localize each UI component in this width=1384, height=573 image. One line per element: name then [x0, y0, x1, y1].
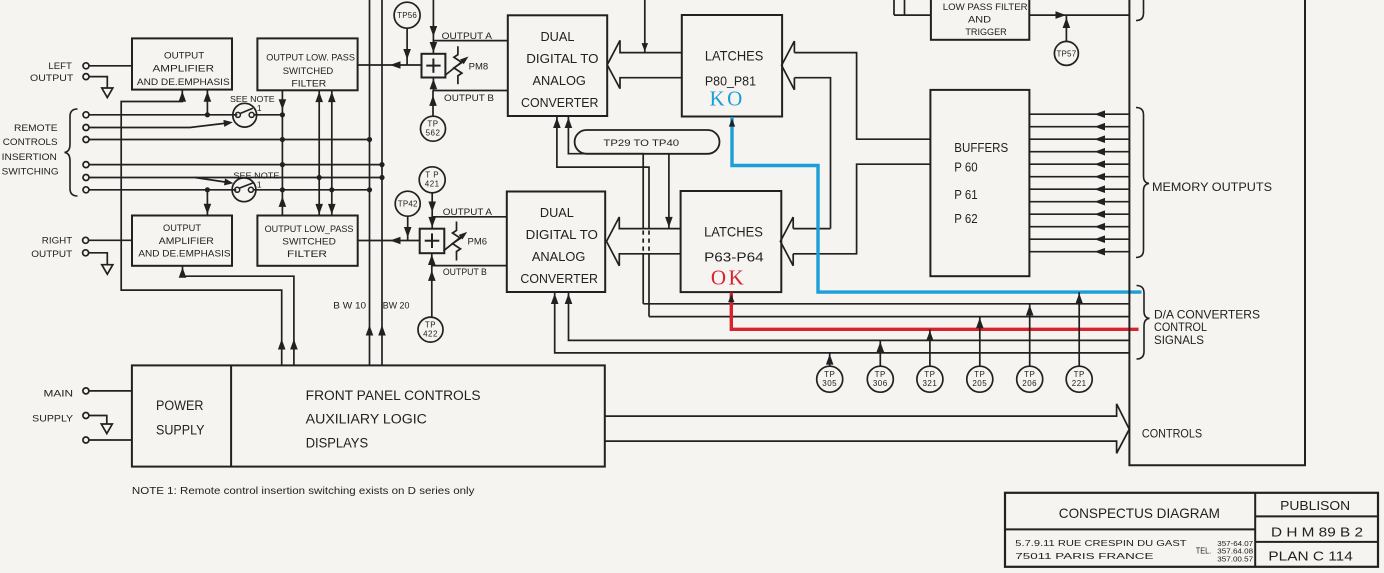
arrow into filter2 top x319 — [315, 204, 323, 215]
svg-text:1: 1 — [257, 103, 262, 113]
block filter2 OUTPUT LOW PASS SWITCHED FILTER — [257, 216, 357, 266]
wire DAC2 bottom inner to bus line C — [569, 292, 1130, 340]
svg-text:DIGITAL TO: DIGITAL TO — [526, 51, 598, 66]
arrow TP305 riser — [826, 354, 834, 365]
svg-text:SWITCHED: SWITCHED — [283, 66, 334, 77]
ground left-output — [102, 88, 113, 98]
bus arrow latches2 to DAC2 — [607, 217, 681, 266]
terminal remote-1 — [83, 112, 89, 118]
svg-text:OK: OK — [711, 266, 746, 290]
svg-text:OUTPUT B: OUTPUT B — [443, 267, 487, 277]
wire BW20 vertical — [381, 0, 383, 365]
bus arrowhead into latches2 right — [780, 217, 793, 266]
junction BW10 row6 — [367, 187, 372, 192]
svg-text:TP57: TP57 — [1056, 49, 1076, 58]
wire KO path (blue highlight) — [732, 117, 1142, 292]
arrow into DAC1 bottom outer — [553, 118, 561, 129]
wire DAC1 bottom outer to bus line B — [557, 116, 649, 229]
terminal remote-4 — [83, 162, 89, 168]
block filter3 LOW PASS FILTER AND TRIGGER — [931, 0, 1029, 40]
block power supply / front panel controls — [132, 365, 605, 466]
svg-text:OUTPUT: OUTPUT — [30, 73, 74, 83]
svg-text:AMPLIFIER: AMPLIFIER — [153, 63, 215, 74]
wire TP422 riser — [431, 266, 433, 318]
wire filter riser x319 — [318, 90, 320, 215]
label oval TP29 TO TP40 — [575, 130, 720, 154]
arrow into summer2 bottom — [428, 255, 436, 266]
wire filter riser x331 — [331, 90, 333, 215]
arrow down on riser x282 from filter1 — [279, 99, 287, 110]
svg-text:SUPPLY: SUPPLY — [156, 423, 205, 438]
wire remote-2 angled to switch A — [89, 123, 231, 128]
junction riser x282 switch-B row — [280, 187, 285, 192]
arrow TP206 riser — [1026, 305, 1034, 316]
wire remote-1 to switch A — [89, 114, 237, 116]
svg-text:CONTROLS: CONTROLS — [3, 137, 58, 148]
svg-text:206: 206 — [1022, 379, 1037, 388]
block DAC1 DUAL DIGITAL TO ANALOG CONVERTER — [508, 15, 607, 116]
arrow TP42 drop — [404, 227, 412, 238]
arrow into filter1 bottom x319 — [315, 92, 323, 103]
arrow on output-A riser upper — [430, 26, 438, 37]
ground main — [101, 424, 112, 434]
svg-text:SUPPLY: SUPPLY — [32, 414, 73, 424]
svg-text:PLAN C 114: PLAN C 114 — [1268, 549, 1352, 564]
wire latches2-right top — [793, 228, 830, 230]
wire memory output line 5 — [1029, 163, 1129, 165]
dashed segment line B through bus arrow2 — [648, 231, 650, 253]
svg-text:NOTE 1: Remote control inse: NOTE 1: Remote control insertion switchi… — [132, 486, 475, 497]
switch B (SEE NOTE 1) — [232, 178, 256, 202]
wire oval drop to bus arrow2 — [668, 154, 670, 229]
block buffers BUFFERS P60 P61 P62 — [930, 90, 1029, 276]
svg-text:TP: TP — [1074, 370, 1085, 379]
svg-text:PUBLISON: PUBLISON — [1280, 498, 1350, 513]
junction remote-5 filter riser — [317, 175, 322, 180]
dashed segment line A through bus arrow2 — [642, 231, 644, 253]
ground right-output — [102, 265, 113, 275]
svg-text:TEL.: TEL. — [1196, 547, 1211, 556]
svg-text:TRIGGER: TRIGGER — [965, 27, 1006, 38]
test point TP422 — [418, 317, 443, 342]
block amp2 OUTPUT AMPLIFIER AND DE.EMPHASIS — [132, 216, 232, 266]
arrow oval drop — [665, 217, 673, 228]
svg-text:306: 306 — [873, 379, 888, 388]
wire output-A row1 to DAC1 — [433, 40, 507, 42]
svg-text:305: 305 — [822, 379, 837, 388]
terminal remote-6 — [83, 187, 89, 193]
junction BW10 row3 — [367, 137, 372, 142]
arrow into amp1 bottom right — [204, 91, 212, 102]
svg-text:CONVERTER: CONVERTER — [521, 95, 599, 110]
wire filter1 bottom riser x282 — [281, 90, 283, 215]
terminal remote-5 — [83, 175, 89, 181]
svg-text:POWER: POWER — [156, 398, 204, 413]
test point TP42 — [395, 191, 420, 216]
svg-text:B W 10: B W 10 — [333, 301, 366, 311]
svg-text:5.7.9.11 RUE CRESPIN DU: 5.7.9.11 RUE CRESPIN DU GAST — [1015, 539, 1186, 548]
svg-text:LATCHES: LATCHES — [705, 48, 763, 64]
wire remote-3 to BW10 line — [89, 139, 370, 141]
test point TP206 — [1017, 366, 1043, 392]
wire main-3 to power box — [89, 439, 132, 441]
junction row6 filter riser — [329, 187, 334, 192]
svg-text:ANALOG: ANALOG — [533, 73, 586, 88]
wire TP305 riser — [829, 353, 831, 366]
svg-text:TP: TP — [425, 320, 436, 329]
svg-text:1: 1 — [257, 179, 262, 189]
wire TP205 riser — [979, 317, 981, 367]
svg-text:TP: TP — [974, 370, 985, 379]
wire memory output line 9 — [1029, 213, 1129, 215]
wire right-output-2 to ground — [89, 253, 108, 265]
test point TP306 — [867, 366, 893, 392]
potentiometer PM6 — [453, 222, 461, 261]
terminal right-output-2 — [83, 250, 89, 256]
wire memory output line 1 — [1029, 113, 1129, 115]
svg-text:LATCHES: LATCHES — [704, 223, 763, 239]
svg-text:TP29 TO TP40: TP29 TO TP40 — [603, 138, 679, 148]
bracket memory outputs — [1136, 108, 1149, 258]
svg-text:DISPLAYS: DISPLAYS — [306, 436, 368, 451]
junction riser x282 row3 — [280, 137, 285, 142]
wire TP306 riser — [879, 340, 881, 366]
arrow into summer2 top — [428, 217, 436, 228]
test point TP562 — [421, 116, 446, 141]
svg-text:OUTPUT B: OUTPUT B — [444, 93, 494, 103]
svg-text:AND DE.EMPHASIS: AND DE.EMPHASIS — [138, 249, 230, 260]
svg-text:SEE NOTE: SEE NOTE — [230, 94, 275, 104]
svg-text:DIGITAL TO: DIGITAL TO — [526, 227, 598, 242]
summer U-sum2 (+) — [420, 229, 445, 254]
svg-text:ANALOG: ANALOG — [532, 249, 585, 264]
svg-text:PM6: PM6 — [468, 236, 488, 246]
svg-text:75011 PARIS FRANCE: 75011 PARIS FRANCE — [1015, 552, 1153, 561]
svg-text:TP: TP — [1024, 370, 1035, 379]
test point TP321 — [917, 366, 943, 392]
wire output-A riser from top — [432, 0, 434, 54]
wire TP42 drop — [407, 216, 409, 240]
wire left-output-1 to amp1 — [89, 65, 132, 67]
wire TP56 drop — [406, 28, 408, 65]
block filter1 OUTPUT LOW PASS SWITCHED FILTER — [257, 38, 357, 90]
svg-text:SWITCHED: SWITCHED — [282, 236, 336, 247]
svg-text:321: 321 — [922, 379, 937, 388]
svg-text:OUTPUT LOW_PASS: OUTPUT LOW_PASS — [265, 224, 354, 235]
wire OK path (red highlight) — [731, 293, 1138, 330]
wire main-1 to power box — [89, 390, 132, 392]
svg-text:OUTPUT A: OUTPUT A — [443, 207, 492, 217]
wire BW10 vertical — [369, 0, 371, 365]
junction remote-1 amp riser — [205, 112, 210, 117]
svg-text:INSERTION: INSERTION — [2, 152, 57, 163]
svg-text:DUAL: DUAL — [541, 29, 575, 44]
wire memory output line 3 — [1029, 138, 1129, 140]
svg-text:P 60: P 60 — [954, 160, 977, 175]
svg-text:PM8: PM8 — [469, 61, 489, 71]
wire memory output line 8 — [1029, 201, 1129, 203]
wire TP562 riser — [432, 91, 434, 117]
arrow TP422 riser — [428, 270, 436, 281]
svg-text:P63-P64: P63-P64 — [704, 249, 764, 264]
bus arrowhead into latches1 right — [782, 41, 795, 90]
svg-text:TP: TP — [824, 370, 835, 379]
wire DAC1 bottom inner to bus line A — [568, 116, 643, 229]
arrow into amp2 bottom — [179, 267, 187, 278]
bus arrow latches1 to DAC1 — [607, 40, 682, 88]
switch A (SEE NOTE 1) — [233, 103, 257, 127]
svg-text:LEFT: LEFT — [48, 61, 72, 71]
arrow into filter1 bottom x331 — [328, 92, 336, 103]
block latches2 LATCHES P63-P64 — [681, 191, 782, 292]
bus arrow controls from front panel — [605, 404, 1130, 453]
arrow up on amp2 feed near box — [290, 339, 298, 350]
wire output-B row1 to DAC1 — [433, 90, 507, 92]
svg-text:CONSPECTUS DIAGRAM: CONSPECTUS DIAGRAM — [1059, 505, 1220, 521]
arrow TP421 drop — [428, 202, 436, 213]
svg-text:SWITCHING: SWITCHING — [2, 167, 59, 178]
arrow into summer1 top — [430, 42, 438, 53]
brace remote controls group — [65, 109, 78, 196]
wire latches1-right top to buffers — [794, 53, 930, 140]
wire summer2 bottom to output-B2 — [431, 253, 433, 265]
arrow TP205 riser — [976, 318, 984, 329]
svg-text:TP56: TP56 — [397, 11, 417, 20]
wire memory output line 10 — [1029, 226, 1129, 228]
svg-text:T P: T P — [425, 171, 439, 180]
summer U-sum1 (+) — [422, 54, 446, 78]
svg-text:TP42: TP42 — [398, 200, 418, 209]
svg-text:BW 20: BW 20 — [383, 301, 410, 311]
svg-text:BUFFERS: BUFFERS — [954, 140, 1008, 155]
svg-text:DUAL: DUAL — [540, 205, 574, 220]
wire remote-5 to BW20 line — [89, 177, 382, 179]
wire buffers left lower to latches2 — [793, 164, 930, 254]
wire memory output line 4 — [1029, 151, 1129, 153]
junction remote-6 amp2 dropper — [205, 187, 210, 192]
wire TP206 riser — [1029, 304, 1031, 366]
svg-text:AMPLIFIER: AMPLIFIER — [159, 236, 214, 247]
svg-text:CONTROLS: CONTROLS — [1142, 426, 1202, 440]
wire memory output line 2 — [1029, 126, 1129, 128]
svg-text:P 61: P 61 — [954, 187, 977, 202]
junction switch A output — [280, 112, 285, 117]
arrow into filter2 right — [390, 237, 401, 245]
wire into filter3 left from top — [893, 0, 895, 15]
arrow OK into latches2 bottom — [728, 294, 734, 302]
terminal main-1 — [83, 388, 89, 394]
wire switch A to filter1 riser — [254, 114, 282, 116]
wire clock drop onto bus arrow1 — [644, 0, 646, 53]
arrow remote-2 into switch A — [223, 120, 232, 127]
wire output-B row2 to DAC2 — [432, 265, 507, 267]
test point TP305 — [817, 366, 843, 392]
wire left-output-2 to ground — [89, 77, 107, 88]
arrow TP306 riser — [877, 342, 885, 353]
svg-text:422: 422 — [423, 329, 438, 338]
wire dropper to amp2 top — [206, 190, 208, 216]
arrow into amp1 bottom left — [179, 91, 187, 102]
test point TP205 — [967, 366, 993, 392]
arrow KO into latches1 bottom — [729, 119, 735, 127]
svg-text:562: 562 — [426, 129, 441, 138]
terminal remote-3 — [83, 137, 89, 143]
wire output-A row2 to DAC2 — [432, 216, 507, 218]
svg-text:OUTPUT LOW. PASS: OUTPUT LOW. PASS — [266, 52, 355, 63]
svg-text:421: 421 — [425, 180, 440, 189]
svg-text:OUTPUT: OUTPUT — [163, 223, 201, 234]
wire main-2 to ground — [89, 416, 107, 425]
svg-text:P 62: P 62 — [954, 211, 977, 226]
svg-text:FRONT PANEL CONTROLS: FRONT PANEL CONTROLS — [306, 388, 481, 403]
svg-text:TP: TP — [427, 120, 438, 129]
arrow BW10 up — [366, 325, 374, 336]
terminal left-output-2 — [83, 74, 89, 80]
svg-text:AND DE.EMPHASIS: AND DE.EMPHASIS — [137, 77, 230, 88]
wire front panel to amp2 — [183, 266, 294, 366]
block latches1 LATCHES P80-P81 — [682, 15, 782, 117]
arrow TP562 riser — [429, 95, 437, 106]
wire TP57 riser — [1065, 16, 1067, 41]
terminal main-3 — [83, 437, 89, 443]
arrow into amp2 top — [204, 204, 212, 215]
wire front panel to amp1 left loop — [121, 90, 282, 366]
arrow up on riser x282 into junction — [279, 196, 287, 207]
arrow into filter2 top x331 — [328, 204, 336, 215]
wire TP321 riser — [929, 329, 931, 366]
svg-text:MAIN: MAIN — [44, 389, 74, 399]
arrow into DAC2 bottom outer — [551, 294, 559, 305]
svg-text:RIGHT: RIGHT — [42, 236, 73, 246]
terminal left-output-1 — [83, 63, 89, 69]
wire latches1-right bottom down — [794, 78, 830, 229]
svg-text:LOW PASS FILTER: LOW PASS FILTER — [943, 2, 1028, 13]
test point TP421 — [419, 167, 445, 193]
wire remote-5 angled branch to switch B — [195, 178, 231, 183]
block DAC2 DUAL DIGITAL TO ANALOG CONVERTER — [507, 192, 605, 293]
svg-text:CONTROL: CONTROL — [1154, 320, 1207, 334]
test point TP221 — [1066, 366, 1092, 392]
wire remote-4 to BW20 line — [89, 164, 382, 166]
wire filter2 output to summer2 — [358, 240, 420, 242]
arrow into DAC1 bottom inner — [565, 118, 573, 129]
wire memory output line 11 — [1029, 238, 1129, 240]
bracket top partial — [1136, 0, 1144, 21]
svg-text:FILTER: FILTER — [291, 79, 326, 90]
test point TP56 — [394, 2, 420, 28]
arrow into summer1 bottom — [430, 79, 438, 90]
arrow TP221 riser — [1075, 293, 1083, 304]
wire filter3 to right box — [1029, 14, 1129, 16]
svg-text:221: 221 — [1072, 379, 1087, 388]
arrow TP57 riser — [1063, 18, 1071, 29]
wire TP421 drop to summer2 — [431, 193, 433, 229]
arrow into filter1 right — [390, 61, 401, 69]
arrow into DAC2 bottom inner — [565, 294, 573, 305]
arrow BW20 up — [378, 325, 386, 336]
arrow remote-5 into switch B — [224, 179, 233, 186]
test point TP57 — [1054, 41, 1078, 65]
block amp1 OUTPUT AMPLIFIER AND DE.EMPHASIS — [132, 38, 232, 89]
arrow TP321 riser — [926, 331, 934, 342]
wire memory output line 6 — [1029, 176, 1129, 178]
wire DAC2 bottom outer to bus line D — [555, 292, 1130, 353]
terminal main-2 — [83, 413, 89, 419]
svg-text:CONVERTER: CONVERTER — [520, 271, 598, 286]
svg-text:TP: TP — [924, 370, 935, 379]
potentiometer PM8 — [454, 46, 462, 84]
wire remote-6 to switch B — [89, 189, 236, 191]
wire switch B to riser x282 — [253, 189, 369, 191]
wire filter1 output to summer1 — [358, 64, 422, 66]
svg-text:REMOTE: REMOTE — [14, 123, 58, 134]
wire riser to amp1 bottom — [206, 90, 208, 115]
svg-text:OUTPUT: OUTPUT — [164, 50, 204, 61]
svg-text:205: 205 — [972, 379, 987, 388]
svg-text:D H M 89 B 2: D H M 89 B 2 — [1271, 524, 1363, 539]
wire memory output line 12 — [1029, 251, 1129, 253]
svg-text:357.00.57: 357.00.57 — [1217, 554, 1253, 563]
junction riser x282 row4 — [280, 162, 285, 167]
svg-text:OUTPUT A: OUTPUT A — [442, 31, 492, 41]
junction BW20 row5 — [379, 175, 384, 180]
terminal remote-2 — [83, 125, 89, 131]
svg-text:AND: AND — [968, 14, 991, 25]
wire TP221 riser — [1078, 292, 1080, 366]
block controls-memory right box — [1129, 0, 1305, 465]
svg-text:FILTER: FILTER — [287, 249, 327, 260]
title block frame — [1005, 493, 1378, 567]
wire right-output-1 to amp2 — [89, 239, 132, 241]
svg-text:AUXILIARY LOGIC: AUXILIARY LOGIC — [306, 411, 427, 426]
arrow filter3 output — [1056, 11, 1067, 19]
wire summer1 bottom to output-B — [432, 78, 434, 91]
junction BW20 row4 — [379, 162, 384, 167]
svg-text:KO: KO — [710, 87, 745, 111]
svg-text:OUTPUT: OUTPUT — [31, 249, 72, 259]
bracket D/A converters control signals — [1137, 286, 1150, 360]
arrow up on amp1 feed near box — [278, 339, 286, 350]
wire memory output line 7 — [1029, 188, 1129, 190]
arrow clock drop1 — [642, 43, 649, 52]
svg-text:TP: TP — [875, 370, 886, 379]
svg-text:SIGNALS: SIGNALS — [1154, 333, 1204, 347]
terminal right-output-1 — [83, 237, 89, 243]
svg-text:MEMORY OUTPUTS: MEMORY OUTPUTS — [1152, 180, 1272, 194]
arrow TP56 drop — [403, 49, 411, 60]
